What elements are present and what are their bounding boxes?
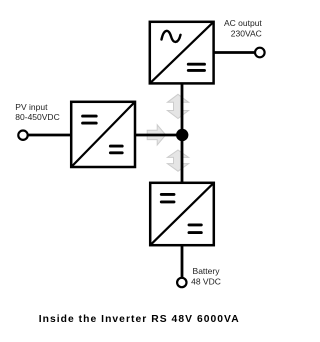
- wire: U2 output to DC bus node: [136, 134, 182, 137]
- label: AC output 230VAC: [224, 18, 262, 38]
- arrow: bidirectional power flow DC bus to U3: [167, 150, 188, 171]
- terminal: AC output: [255, 48, 265, 58]
- label: Battery 48 VDC: [191, 266, 221, 286]
- svg-text:48 VDC: 48 VDC: [191, 277, 221, 287]
- converter block U1 (DC-AC inverter): [150, 22, 214, 84]
- converter block U2 (PV input DC-DC converter): [71, 102, 135, 167]
- arrow: power flow U2 to DC bus: [147, 125, 166, 145]
- node: DC bus junction: [176, 129, 188, 141]
- arrow: bidirectional power flow U1 to DC bus: [167, 94, 188, 118]
- svg-text:230VAC: 230VAC: [231, 28, 262, 38]
- wire: U3 bottom to battery terminal: [181, 246, 184, 278]
- svg-text:Inside the Inverter RS 48V 600: Inside the Inverter RS 48V 6000VA: [39, 314, 240, 325]
- terminal: battery: [177, 278, 186, 287]
- label: PV input 80-450VDC: [15, 102, 59, 122]
- svg-text:Battery: Battery: [193, 266, 221, 276]
- wire: DC bus vertical (U1 bottom to U3 top): [181, 84, 184, 182]
- wire: PV terminal to U2 input: [25, 134, 71, 137]
- wire: U1 output to AC terminal: [214, 51, 256, 54]
- converter block U3 (battery DC-DC converter): [150, 183, 214, 245]
- terminal: PV input: [18, 131, 27, 140]
- caption: Inside the Inverter RS 48V 6000VA: [39, 314, 240, 325]
- svg-text:80-450VDC: 80-450VDC: [15, 112, 59, 122]
- svg-text:PV input: PV input: [15, 102, 48, 112]
- svg-text:AC output: AC output: [224, 18, 262, 28]
